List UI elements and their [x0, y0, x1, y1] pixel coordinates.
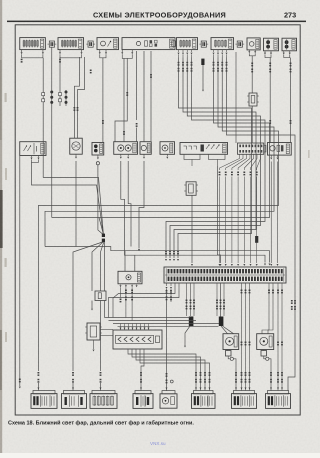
svg-text:VNX.su: VNX.su [150, 441, 166, 446]
svg-text:Схема 18. Ближний свет фар, да: Схема 18. Ближний свет фар, дальний свет… [8, 420, 194, 427]
